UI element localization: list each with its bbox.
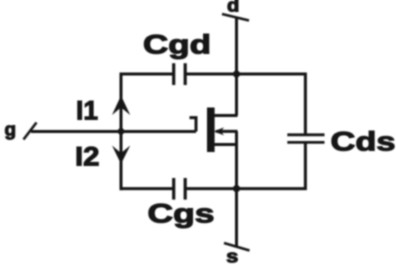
current arrow I1 (up) on left rail: [112, 96, 130, 116]
svg-text:Cgs: Cgs: [148, 199, 215, 229]
svg-text:s: s: [226, 247, 238, 265]
svg-text:g: g: [5, 120, 17, 140]
wire: Cgd right plate to drain junction: [187, 73, 238, 76]
wire: body arrow shaft to source rail: [216, 130, 238, 133]
svg-text:d: d: [227, 0, 239, 16]
transistor Q1 gate electrode: [190, 118, 197, 132]
svg-text:I1: I1: [76, 95, 98, 125]
capacitor Cgs: [174, 178, 186, 200]
wire: Cds bottom branch to source junction: [237, 143, 306, 189]
terminal slash at g: [24, 123, 37, 140]
capacitor Cgd: [174, 63, 186, 85]
capacitor Cds: [287, 135, 324, 143]
svg-text:I2: I2: [75, 141, 100, 171]
transistor Q1 channel bar: [207, 108, 215, 153]
transistor Q1 body arrow: [214, 127, 224, 135]
wire: source vertical rail (s net): [235, 131, 238, 247]
terminal slash at d: [222, 14, 249, 21]
svg-text:Cgd: Cgd: [143, 30, 211, 60]
wire: left vertical rail (gate net): [120, 73, 123, 191]
wire: drain horizontal connection to MOSFET: [213, 114, 238, 117]
wire: Cgs right plate to source junction: [187, 187, 238, 190]
wire: gate lead from g terminal to gate electrode: [31, 130, 196, 133]
wire: top horizontal (gate-left rail to Cgd left plate): [121, 73, 173, 76]
terminal slash at s: [224, 243, 250, 251]
node: junction of Cgd, Cds and drain rail: [233, 70, 240, 77]
node: junction of gate lead and left rail: [118, 128, 125, 135]
wire: source horizontal connection from MOSFET: [213, 143, 238, 146]
wire: Cds top branch from drain junction: [237, 74, 306, 134]
current arrow I2 (down) on left rail: [112, 146, 130, 165]
wire: bottom horizontal (left rail to Cgs left plate): [121, 187, 173, 190]
wire: drain vertical rail (d net): [235, 17, 238, 116]
node: junction of Cgs, Cds return and source rail: [233, 185, 240, 192]
svg-text:Cds: Cds: [331, 127, 396, 157]
